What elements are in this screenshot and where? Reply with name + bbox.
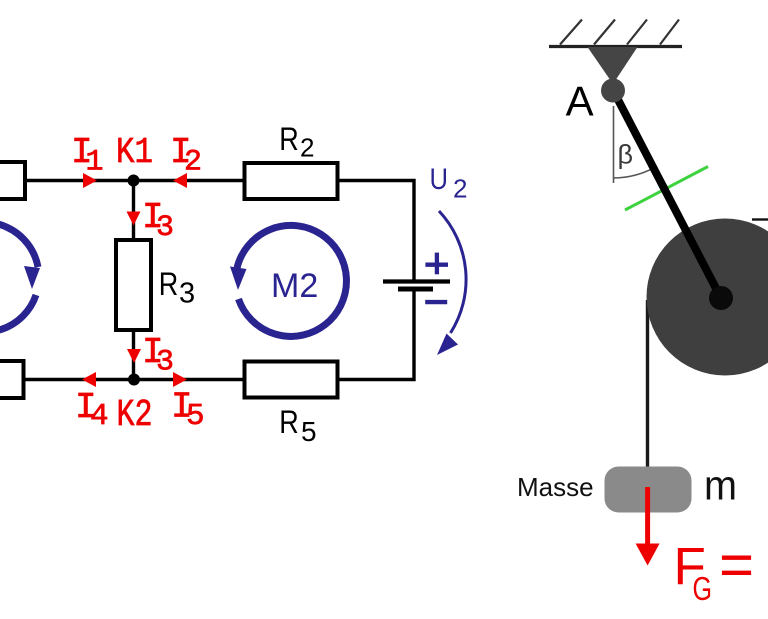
label R2 <box>279 121 314 163</box>
string from pulley to mass <box>646 300 649 469</box>
current arrow I5 <box>173 372 187 387</box>
rod from pivot to disc <box>613 90 721 298</box>
svg-text:Masse: Masse <box>517 472 594 502</box>
wire R3 down to node K2 <box>132 330 135 380</box>
svg-text:=: = <box>719 531 754 598</box>
node K1 <box>128 175 140 187</box>
label m <box>704 462 737 509</box>
battery U2 plus plate <box>383 279 450 283</box>
resistor R5 <box>245 362 338 398</box>
svg-text:4: 4 <box>90 399 109 434</box>
current arrow I4 <box>82 372 96 387</box>
svg-text:2: 2 <box>184 146 202 180</box>
wire top-right corner down to battery <box>338 181 415 280</box>
svg-text:U: U <box>430 163 449 196</box>
svg-text:R: R <box>159 266 179 302</box>
wire bottom (R5 to left box) <box>24 378 245 381</box>
svg-text:3: 3 <box>156 211 174 245</box>
mesh loop M2 <box>230 225 346 336</box>
svg-text:G: G <box>693 570 713 607</box>
svg-text:R: R <box>279 404 299 440</box>
resistor R4 (partially cut at left edge, bottom) <box>0 361 24 398</box>
svg-text:2: 2 <box>300 133 314 163</box>
label I2 <box>170 132 202 180</box>
label Masse <box>517 472 594 502</box>
label R5 <box>279 404 316 447</box>
label I3 bottom <box>142 332 174 380</box>
tick mark at right edge <box>752 218 768 220</box>
svg-text:K2: K2 <box>117 394 153 437</box>
ceiling hatching <box>560 20 679 45</box>
support bracket triangle <box>588 47 638 84</box>
svg-text:5: 5 <box>301 416 317 447</box>
current arrow I3 bottom <box>127 349 141 363</box>
svg-text:K1: K1 <box>116 132 153 173</box>
weight force arrow <box>636 487 660 566</box>
hub dot <box>709 286 733 310</box>
pivot circle A <box>601 79 625 103</box>
wire right side bottom (battery to R5) <box>338 291 415 380</box>
current arrow I2 <box>173 173 187 188</box>
label R3 <box>159 266 195 310</box>
resistor R1 (partially cut at left edge, top) <box>0 162 25 199</box>
vertical reference line <box>613 106 615 183</box>
mesh loop M1 (cut at left edge) <box>0 222 40 332</box>
svg-text:A: A <box>566 78 594 125</box>
label M2 <box>271 267 318 305</box>
current arrow I3 top <box>127 212 141 226</box>
battery minus sign <box>425 300 447 304</box>
battery plus sign <box>425 253 448 275</box>
pulley disc <box>647 219 768 376</box>
svg-text:5: 5 <box>186 399 205 434</box>
green marker line <box>625 167 708 211</box>
svg-text:2: 2 <box>453 174 467 204</box>
mass block <box>605 467 692 513</box>
svg-text:m: m <box>704 462 737 509</box>
label FG= <box>674 531 755 607</box>
angle arc beta <box>614 168 654 178</box>
svg-text:β: β <box>618 140 634 170</box>
label I5 <box>171 387 205 435</box>
battery U2 minus plate <box>398 287 433 292</box>
svg-text:M2: M2 <box>271 267 318 305</box>
label I1 <box>71 132 104 180</box>
label A <box>566 78 594 125</box>
resistor R2 <box>245 163 338 199</box>
label K2 <box>117 394 153 437</box>
label U2 <box>430 163 468 204</box>
node K2 <box>128 374 140 386</box>
svg-text:1: 1 <box>86 146 104 180</box>
svg-text:R: R <box>279 121 299 157</box>
label I3 top <box>142 197 174 245</box>
ceiling line <box>549 45 682 48</box>
label K1 <box>116 132 153 173</box>
label I4 <box>75 387 109 434</box>
wire top (left box to R2) <box>25 179 244 182</box>
current arrow I1 <box>83 173 97 188</box>
label beta <box>618 140 634 170</box>
voltage arc arrow U2 <box>437 211 466 355</box>
svg-text:3: 3 <box>156 346 174 380</box>
wire node K1 down to R3 <box>132 181 135 241</box>
svg-text:3: 3 <box>179 278 195 310</box>
resistor R3 <box>116 240 151 330</box>
